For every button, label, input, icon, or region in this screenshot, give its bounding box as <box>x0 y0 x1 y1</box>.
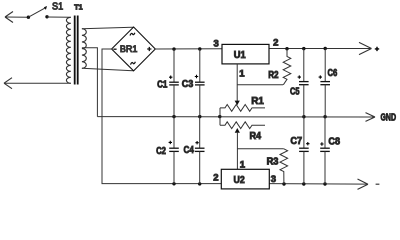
capacitor C4 <box>195 117 205 184</box>
transformer T1 core <box>75 16 78 85</box>
junction: top rail C1 <box>172 47 175 50</box>
label minus output <box>376 183 380 185</box>
svg-text:S1: S1 <box>52 2 64 13</box>
capacitor C2 <box>169 117 179 184</box>
capacitor C7 <box>299 117 309 184</box>
wire: R4 wiper to U2 pin1 <box>236 132 238 169</box>
junction: GND rail C1 <box>172 115 175 118</box>
svg-text:C1: C1 <box>157 80 168 91</box>
potentiometer R1 <box>220 105 265 112</box>
capacitor C3 <box>195 49 205 117</box>
svg-text:U2: U2 <box>234 175 246 186</box>
R1 wiper arrow <box>235 101 240 106</box>
junction: top rail R2 <box>285 47 288 50</box>
transformer T1 primary winding <box>66 17 70 83</box>
BR1 plus terminal mark <box>147 47 151 51</box>
wire: negative rail right of U2 <box>269 183 367 186</box>
resistor R3 <box>280 149 288 184</box>
label plus output <box>375 47 379 51</box>
capacitor C6 <box>319 49 330 117</box>
junction: negative rail C7 <box>302 182 305 185</box>
svg-text:3: 3 <box>214 39 219 50</box>
svg-text:R1: R1 <box>251 96 264 107</box>
switch S1 blade <box>28 6 47 17</box>
transformer T1 secondary winding <box>82 29 86 69</box>
wire: U2 pin1 branch to R3 top <box>237 148 283 150</box>
wire: secondary bottom tap to BR1 AC bottom <box>82 68 134 71</box>
svg-text:U1: U1 <box>234 50 246 61</box>
resistor R2 <box>283 49 291 85</box>
wire: secondary top tap to BR1 AC top <box>82 27 134 29</box>
junction: GND rail C3 <box>198 115 201 118</box>
potentiometer R4 <box>220 122 265 129</box>
voltage regulator U2 <box>221 169 269 189</box>
svg-text:R3: R3 <box>267 156 279 167</box>
svg-text:1: 1 <box>239 68 245 79</box>
capacitor C1 <box>169 49 179 117</box>
AC line input arrow top <box>5 12 13 23</box>
wire: top rail U1 pin2 to plus output <box>269 48 371 50</box>
junction: negative rail C4 <box>198 182 201 185</box>
wire: BR1 minus to negative rail <box>102 49 221 184</box>
junction: switch S1 left contact <box>27 16 30 19</box>
junction: top rail C3 <box>198 47 201 50</box>
junction: GND rail C6/C8 <box>323 115 326 118</box>
svg-text:T1: T1 <box>74 3 82 12</box>
svg-text:C6: C6 <box>328 68 338 79</box>
junction: GND rail R1/R4 <box>218 115 221 118</box>
wire: U1 pin1 to R2 bottom <box>237 84 283 86</box>
svg-text:C4: C4 <box>184 145 195 156</box>
wire: R1/R4 left ends to GND rail <box>219 108 221 125</box>
capacitor C8 <box>320 117 330 184</box>
output arrow GND <box>366 113 376 122</box>
junction: GND rail C5/C7 <box>302 115 305 118</box>
svg-text:GND: GND <box>381 113 397 124</box>
svg-text:1: 1 <box>240 160 246 171</box>
svg-text:R4: R4 <box>250 131 262 142</box>
junction: top rail C6 <box>324 47 327 50</box>
wire: AC top line to switch contact <box>5 16 28 18</box>
svg-text:C8: C8 <box>328 137 340 148</box>
junction: negative rail C2 <box>172 182 175 185</box>
wire: BR1 plus to U1 pin3 (raw positive rail) <box>155 48 222 50</box>
R4 wiper arrow <box>235 128 240 133</box>
svg-text:2: 2 <box>213 173 218 184</box>
BR1 AC symbol bottom <box>131 62 136 65</box>
junction: negative rail R3 <box>282 182 285 185</box>
voltage regulator U1 <box>222 44 269 64</box>
svg-text:C7: C7 <box>290 136 302 147</box>
svg-text:R2: R2 <box>268 70 279 81</box>
junction: switch S1 right contact <box>45 15 48 18</box>
svg-text:C2: C2 <box>156 146 166 157</box>
junction: top rail C5 <box>302 47 305 50</box>
wire: U1 pin1 to R1 wiper <box>236 64 238 101</box>
svg-text:3: 3 <box>271 174 276 185</box>
wire: primary bottom to AC bottom line <box>4 82 71 84</box>
wire: switch to transformer primary top <box>47 16 71 18</box>
bridge rectifier BR1 body <box>112 27 156 71</box>
BR1 AC symbol top <box>130 33 135 36</box>
svg-text:BR1: BR1 <box>120 44 138 54</box>
wire: secondary center tap <box>82 48 98 117</box>
AC line input arrow bottom <box>4 78 12 89</box>
output arrow minus <box>358 179 369 189</box>
svg-text:C3: C3 <box>182 79 194 90</box>
capacitor C5 <box>298 49 309 117</box>
wire: GND rail <box>97 116 374 118</box>
junction: negative rail C8 <box>323 182 326 185</box>
output arrow plus <box>359 42 372 54</box>
BR1 minus terminal mark <box>113 48 116 50</box>
svg-text:C5: C5 <box>290 87 300 98</box>
svg-text:2: 2 <box>273 38 278 49</box>
